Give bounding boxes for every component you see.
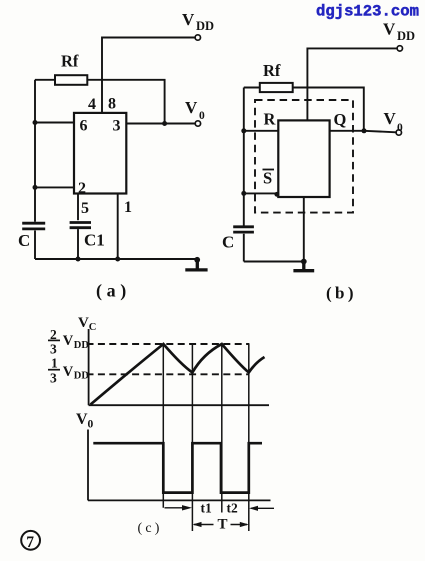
guide line t valley2 xyxy=(248,344,250,531)
wire left-rail to Rf (b) xyxy=(244,87,260,89)
svg-text:t2: t2 xyxy=(227,501,238,516)
svg-text:(b): (b) xyxy=(326,284,357,303)
ground (b) xyxy=(293,262,314,271)
svg-text:V: V xyxy=(76,411,88,428)
output square wave xyxy=(93,443,262,492)
flip-flop box (b) xyxy=(278,120,329,197)
wire left rail (b) upper xyxy=(243,88,245,226)
wire bottom rail (a) xyxy=(35,258,197,260)
svg-text:C: C xyxy=(222,233,234,252)
capacitor C (a) plates xyxy=(22,223,45,229)
junction pin2/left rail (a) xyxy=(33,185,38,190)
svg-text:DD: DD xyxy=(74,371,90,382)
svg-text:0: 0 xyxy=(88,419,94,431)
wire Rf to output corner (a) xyxy=(87,80,164,123)
svg-text:R: R xyxy=(264,110,277,129)
wire left rail (a) upper xyxy=(34,80,36,222)
wire pin2 (a) xyxy=(35,186,74,188)
junction Rf/V0 (b) xyxy=(362,128,367,133)
node V0 terminal (b) xyxy=(396,130,401,135)
resistor Rf (a) body xyxy=(55,75,87,85)
svg-text:0: 0 xyxy=(397,122,403,134)
wire left-rail to Rf (a) xyxy=(35,79,55,81)
junction ground/bottom rail (a) xyxy=(194,257,200,263)
svg-text:Rf: Rf xyxy=(263,61,281,80)
wire VDD to IC top (a) xyxy=(102,38,195,113)
junction ground/bottom rail (b) xyxy=(301,259,307,265)
svg-text:Q: Q xyxy=(334,110,347,129)
node VDD terminal (b) xyxy=(397,46,402,51)
svg-text:5: 5 xyxy=(81,200,89,217)
svg-text:t1: t1 xyxy=(201,501,212,516)
dimension arrow T right xyxy=(231,524,248,526)
dashed level 1/3 VDD xyxy=(87,373,250,375)
junction S/left rail (b) xyxy=(241,191,246,196)
IC U1 555 box (a) xyxy=(74,113,126,194)
svg-text:V: V xyxy=(63,333,74,349)
wire bottom rail (b) xyxy=(244,261,304,263)
dimension arrow t2 right xyxy=(251,507,274,509)
wire left rail (a) lower xyxy=(34,231,36,260)
svg-text:3: 3 xyxy=(50,370,57,385)
guide line t peak1 xyxy=(162,344,164,508)
svg-text:(a): (a) xyxy=(96,281,131,302)
capacitor voltage waveform xyxy=(91,344,265,405)
dimension arrow t1 left xyxy=(165,507,190,509)
page number 7 circled xyxy=(21,531,40,550)
svg-text:C1: C1 xyxy=(84,231,105,250)
dashed level 2/3 VDD xyxy=(87,343,250,345)
capacitor C (b) plates xyxy=(233,227,254,232)
wire Q output to V0 (b) xyxy=(330,131,397,133)
svg-text:C: C xyxy=(89,322,97,333)
axis V0 vertical xyxy=(87,430,89,501)
svg-text:S: S xyxy=(263,169,272,188)
junction pin6/left rail (a) xyxy=(33,120,38,125)
svg-text:DD: DD xyxy=(74,340,90,351)
svg-text:3: 3 xyxy=(50,341,57,356)
svg-text:6: 6 xyxy=(80,118,88,135)
axis Vc horizontal xyxy=(89,404,269,406)
svg-text:4: 4 xyxy=(88,96,96,113)
svg-text:C: C xyxy=(18,231,30,250)
resistor Rf (b) body xyxy=(260,83,293,92)
wire S input (b) xyxy=(244,192,278,194)
axis V0 horizontal xyxy=(88,499,271,501)
junction Rf/output (a) xyxy=(162,121,167,126)
junction pin1/bottom rail (a) xyxy=(115,257,120,262)
svg-text:0: 0 xyxy=(199,110,205,122)
svg-text:V: V xyxy=(78,315,89,331)
node VDD terminal (a) xyxy=(195,35,200,40)
svg-text:V: V xyxy=(182,10,195,29)
wire C1 to bottom rail (a) xyxy=(77,229,79,259)
guide line t valley1 xyxy=(191,344,193,531)
junction C1/bottom rail (a) xyxy=(76,257,81,262)
svg-text:1: 1 xyxy=(51,356,58,371)
wire Rf to output corner (b) xyxy=(293,88,364,131)
svg-text:dgjs123.com: dgjs123.com xyxy=(316,3,419,21)
wire pin3 to V0 (a) xyxy=(126,123,195,125)
guide line t peak2 xyxy=(221,344,223,513)
svg-text:1: 1 xyxy=(124,199,132,216)
svg-text:V: V xyxy=(185,98,198,117)
svg-text:8: 8 xyxy=(108,96,116,113)
svg-text:DD: DD xyxy=(196,19,214,33)
dimension arrow T left xyxy=(194,524,214,526)
svg-text:(c): (c) xyxy=(138,521,163,536)
dashed 555 boundary box (b) xyxy=(255,100,353,213)
wire VDD to IC top (b) xyxy=(307,48,397,120)
wire left rail (b) lower xyxy=(243,234,245,262)
axis Vc vertical xyxy=(88,329,90,405)
wire pin1 down (a) xyxy=(117,194,119,260)
junction S at box edge (b) xyxy=(274,192,279,197)
capacitor C1 (a) plates xyxy=(70,223,91,228)
svg-text:Rf: Rf xyxy=(61,52,79,71)
svg-text:7: 7 xyxy=(26,534,34,551)
wire flip-flop to ground rail (b) xyxy=(303,197,305,262)
wire pin6 (a) xyxy=(35,122,74,124)
svg-text:2: 2 xyxy=(78,180,86,197)
node V0 terminal (a) xyxy=(195,121,200,126)
junction R/left rail (b) xyxy=(241,128,246,133)
svg-text:DD: DD xyxy=(397,29,415,43)
svg-text:V: V xyxy=(384,109,397,128)
ground (a) xyxy=(185,259,207,270)
wire R input (b) xyxy=(244,130,278,132)
svg-text:3: 3 xyxy=(113,118,121,135)
svg-text:T: T xyxy=(218,517,228,533)
svg-text:V: V xyxy=(63,364,74,380)
wire pin5 down (a) xyxy=(77,194,79,221)
svg-text:V: V xyxy=(383,20,396,39)
